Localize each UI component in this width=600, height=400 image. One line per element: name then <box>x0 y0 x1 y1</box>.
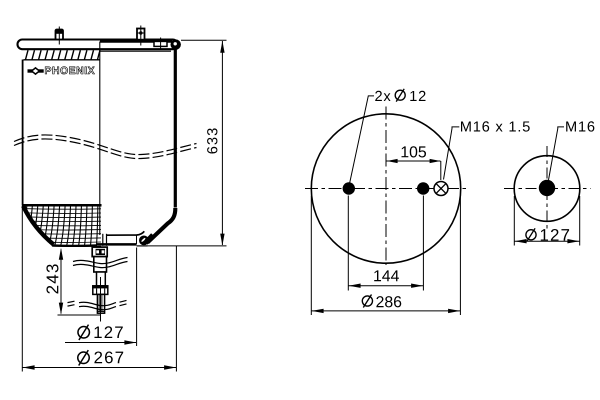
M16 stud dot <box>539 180 555 196</box>
phoenix logo <box>28 67 95 75</box>
air fitting M16x1.5 top view <box>434 182 448 196</box>
section centerline <box>99 42 101 236</box>
top view circle d286 <box>311 114 460 263</box>
dimension diameter 127 left <box>65 248 137 347</box>
dimension diameter 286 <box>311 196 460 315</box>
piston section <box>97 231 148 246</box>
rod middle segment <box>97 272 106 286</box>
air fitting boss on plate <box>154 38 167 49</box>
bellows left edge <box>22 60 24 206</box>
bead plate top <box>18 40 178 50</box>
centerlines top view <box>305 107 469 266</box>
rolled bead top right <box>171 39 181 49</box>
hex nut <box>92 285 108 294</box>
dimension diameter 267 <box>22 205 176 372</box>
break wave upper (bellows shortened) <box>14 135 197 159</box>
dimension 144 <box>348 196 423 291</box>
bellows right wall section <box>148 49 176 243</box>
stud hole left (2x d12) <box>343 182 355 194</box>
side circle d127 <box>514 156 580 222</box>
rod centerline <box>100 277 102 322</box>
mounting stud left <box>56 27 64 45</box>
center bolt flange <box>92 247 107 257</box>
centerlines right view <box>504 146 591 230</box>
rolled bead bottom right <box>139 235 153 245</box>
leader M16x1.5 <box>444 121 530 179</box>
dimension diameter 127 right <box>514 196 579 246</box>
rod upper segment <box>94 257 107 272</box>
break wave lower (rod shortened) <box>68 258 128 310</box>
crimp hatch band <box>24 50 172 60</box>
dimension 243 <box>46 248 100 315</box>
dimension 633 <box>148 40 227 246</box>
dimension 105 <box>387 146 441 180</box>
rod lower threaded segment <box>97 294 105 313</box>
cord mesh rolling lobe <box>19 204 102 247</box>
stud hole right <box>417 182 429 194</box>
mounting stud right <box>137 26 145 46</box>
leader 2x d12 <box>349 89 426 187</box>
leader M16 <box>549 121 595 180</box>
